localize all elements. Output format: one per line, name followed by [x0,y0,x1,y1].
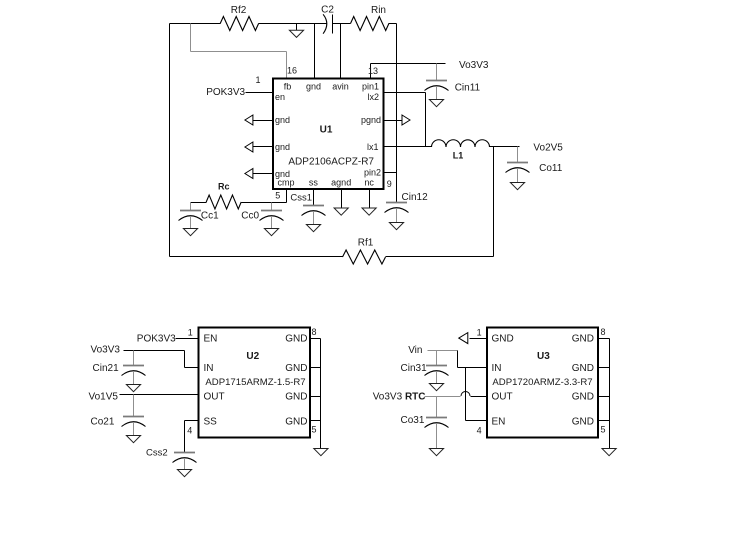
svg-text:1: 1 [255,75,260,85]
ground (top bus) [296,24,298,31]
wire: output feedback vertical [493,147,495,257]
inductor L1 [432,140,490,147]
resistor Rin [351,17,389,31]
capacitor Cin21 [133,351,135,366]
svg-text:Vo3V3: Vo3V3 [459,60,489,71]
svg-text:IN: IN [204,363,214,374]
capacitor Co11 [517,147,519,163]
wire: U3 EN stub [466,420,487,422]
svg-text:Co31: Co31 [401,415,425,426]
IC U2 body [199,328,311,438]
svg-text:Vo3V3: Vo3V3 [91,345,121,356]
wire: gnd2 stub [253,146,273,148]
svg-text:Rf1: Rf1 [358,238,374,249]
wire: U2 EN stub [176,338,199,340]
wire: gnd3 stub [253,173,273,175]
svg-text:1: 1 [188,328,193,338]
capacitor Cc0 [271,203,273,211]
wire: top bus C2 to Rin [333,23,351,25]
wire: lx1 stub to L1 [384,146,432,148]
svg-text:Vo2V5: Vo2V5 [533,143,563,154]
wire: U2 input horizontal [124,350,185,352]
svg-text:pin1: pin1 [362,82,379,92]
wire: U3 GND stub 2 [599,367,610,369]
wire: U2 GND stub 3 [311,396,321,398]
IC U3 body [487,328,598,438]
svg-text:Cc0: Cc0 [241,211,259,222]
svg-text:Vin: Vin [408,345,422,356]
wire: U3 GND1 stub [470,338,487,340]
svg-text:8: 8 [311,327,316,337]
wire: RTC to OUT stub [471,396,487,398]
IC U1 body [273,79,384,190]
svg-text:ADP1715ARMZ-1.5-R7: ADP1715ARMZ-1.5-R7 [205,377,305,388]
svg-text:U3: U3 [537,351,550,362]
svg-text:5: 5 [275,191,280,201]
svg-text:Css2: Css2 [146,448,168,459]
svg-text:1: 1 [477,328,482,338]
port connector gnd3 (left) [245,169,253,179]
wire: Rc to cmp [242,202,287,204]
svg-text:Cin31: Cin31 [401,363,428,374]
wire: fb jog vertical from top bus [190,24,192,52]
svg-text:GND: GND [492,334,514,345]
wire: gnd1 stub [253,120,273,122]
wire: input rail vertical (Rin to Cin12) [396,24,398,203]
wire: U3 GND stub 3 [599,396,610,398]
svg-text:nc: nc [364,178,374,188]
wire: ss pin drop [313,189,315,206]
wire: cmp pin drop [286,189,288,203]
svg-text:Rf2: Rf2 [231,5,247,16]
svg-text:IN: IN [492,363,502,374]
capacitor Cc1 [190,203,192,211]
svg-text:GND: GND [572,416,594,427]
svg-text:GND: GND [572,391,594,402]
svg-text:C2: C2 [321,5,334,16]
wire: U2 GND stub 4 [311,420,321,422]
wire: en pin stub [246,92,273,94]
wire: agnd pin drop [341,189,343,209]
wire: U3 IN stub [458,367,487,369]
ground (U3 rail) [602,449,616,456]
wire: pin1 to Vo3V3 horizontal [371,63,446,65]
svg-text:POK3V3: POK3V3 [137,333,176,344]
wire: nc pin drop [369,189,371,209]
wire: U2 input corner [184,351,186,368]
svg-text:fb: fb [284,82,292,92]
svg-text:Cin21: Cin21 [93,363,120,374]
wire: U2 ground rail [320,339,322,449]
svg-text:OUT: OUT [204,391,225,402]
svg-text:GND: GND [572,363,594,374]
wire: left loop vertical [169,24,171,257]
wire: Vin horizontal [428,350,458,352]
wire: U3 ground rail [609,339,611,449]
svg-text:5: 5 [311,425,316,435]
capacitor Co31 [436,397,438,418]
svg-text:Vo3V3 RTC: Vo3V3 RTC [373,391,426,402]
capacitor Cin31 [436,351,438,366]
svg-text:8: 8 [600,327,605,337]
wire: RTC hop over rail [461,392,470,396]
svg-text:EN: EN [204,334,218,345]
wire: top feedback bus segment left [170,23,221,25]
ground (agnd) [334,208,348,215]
svg-text:avin: avin [332,82,349,92]
capacitor Css1 [313,205,315,207]
capacitor Co21 [133,395,135,417]
wire: lx2-lx1 tie vertical [425,93,427,147]
wire: pin1 stub up [370,64,372,79]
wire: U2 IN stub [185,367,199,369]
svg-text:agnd: agnd [331,178,351,188]
wire: fb pin drop [286,52,288,79]
svg-text:GND: GND [572,334,594,345]
svg-text:POK3V3: POK3V3 [206,87,245,98]
svg-text:EN: EN [492,416,506,427]
svg-text:Rin: Rin [371,5,386,16]
svg-text:Co11: Co11 [539,163,563,174]
svg-text:lx1: lx1 [367,142,379,152]
resistor Rc [206,195,241,209]
svg-text:16: 16 [287,66,297,76]
svg-text:SS: SS [204,416,218,427]
svg-text:Cc1: Cc1 [201,211,219,222]
wire: U2 OUT wire [120,394,199,396]
wire: pin2 stub [384,172,397,174]
wire: U2 GND stub 2 [311,367,321,369]
svg-text:9: 9 [387,179,392,189]
wire: top bus Rf2 to C2 [259,23,327,25]
wire: avin pin drop [340,24,342,79]
svg-text:5: 5 [600,425,605,435]
svg-text:Cin12: Cin12 [402,192,429,203]
wire: U2 SS drop [184,421,186,453]
resistor Rf2 [220,17,258,31]
svg-text:gnd: gnd [306,82,321,92]
wire: L1 to output [490,146,520,148]
svg-text:GND: GND [285,363,307,374]
svg-text:gnd: gnd [275,142,290,152]
wire: U3 GND stub 4 [599,420,610,422]
port connector pgnd (right) [402,115,410,125]
svg-text:GND: GND [285,391,307,402]
svg-text:U1: U1 [320,125,333,136]
svg-text:L1: L1 [453,151,464,161]
wire: U2 GND stub 1 [311,338,321,340]
port connector U3 pin1 (left) [459,333,468,344]
svg-text:13: 13 [368,66,378,76]
capacitor Css2 [184,452,186,454]
svg-text:4: 4 [187,426,192,436]
wire: U3 GND stub 1 [599,338,610,340]
svg-text:4: 4 [477,426,482,436]
resistor Rf1 [343,250,386,264]
wire: RTC horizontal [425,396,461,398]
wire: top bus Rin to right corner [389,23,397,25]
svg-text:U2: U2 [246,351,259,362]
svg-text:gnd: gnd [275,115,290,125]
svg-text:en: en [275,92,285,102]
wire: lx2 stub [384,92,426,94]
svg-text:GND: GND [285,416,307,427]
wire: gnd pin drop (U1 top) [314,24,316,79]
capacitor Cin12 [396,202,398,204]
svg-text:Rc: Rc [218,182,230,192]
ground (U2 rail) [314,449,328,456]
wire: bottom feedback bus left [170,256,343,258]
svg-text:ADP2106ACPZ-R7: ADP2106ACPZ-R7 [288,157,374,168]
svg-text:lx2: lx2 [367,92,379,102]
wire: pgnd stub [384,120,403,122]
svg-text:GND: GND [285,334,307,345]
port connector gnd1 (left) [245,115,253,125]
capacitor C2 (series, curved plate) [323,14,327,33]
wire: compensation rail [191,202,207,204]
svg-text:pin2: pin2 [364,168,381,178]
svg-text:ss: ss [309,178,319,188]
svg-text:Co21: Co21 [91,416,115,427]
wire: Vin corner down [457,351,459,368]
svg-text:pgnd: pgnd [361,115,381,125]
capacitor Cin11 [436,64,438,81]
svg-text:OUT: OUT [492,391,513,402]
ground (nc) [362,208,376,215]
wire: U2 SS stub [185,420,199,422]
svg-text:cmp: cmp [277,178,294,188]
svg-text:Vo1V5: Vo1V5 [89,391,119,402]
svg-text:Cin11: Cin11 [455,82,481,93]
port connector gnd2 (left) [245,142,253,152]
svg-text:ADP1720ARMZ-3.3-R7: ADP1720ARMZ-3.3-R7 [492,377,592,388]
wire: fb jog horizontal [191,51,287,53]
svg-text:Css1: Css1 [290,192,312,203]
wire: U3 IN-EN tie vertical [465,368,467,421]
wire: bottom feedback bus right [386,256,494,258]
